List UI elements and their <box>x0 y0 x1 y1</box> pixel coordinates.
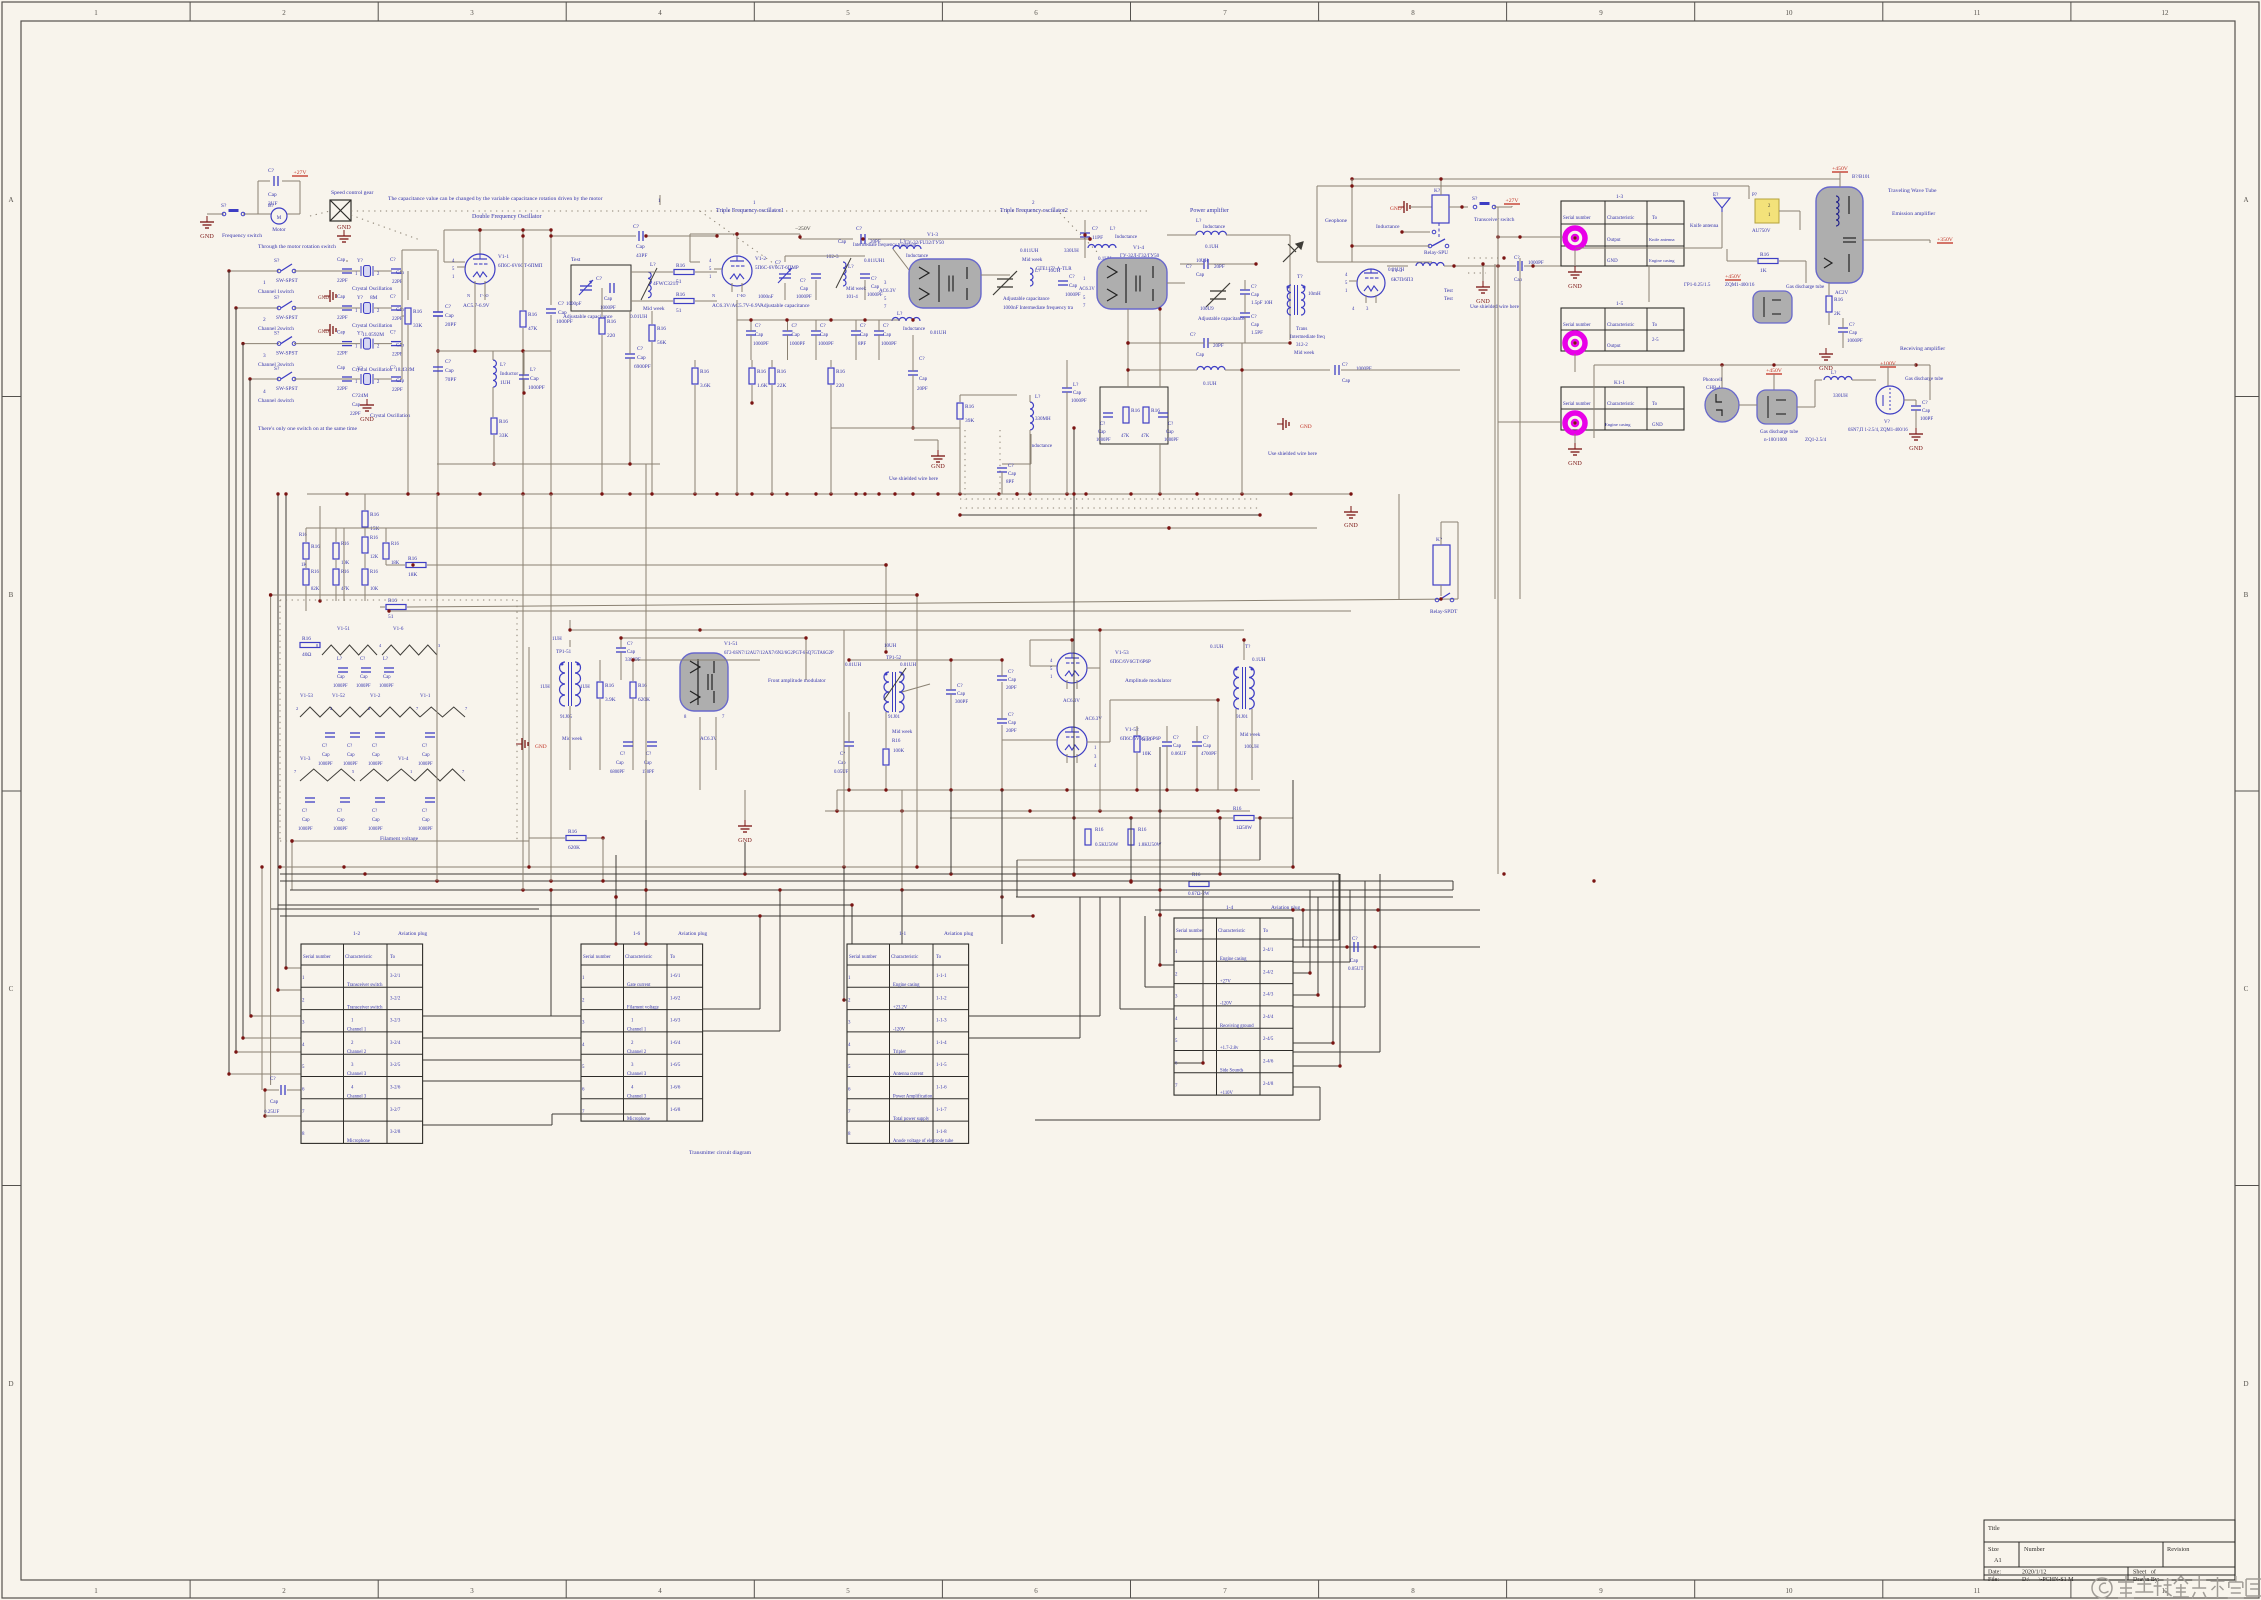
svg-text:+27V: +27V <box>293 170 307 176</box>
svg-text:6: 6 <box>1034 9 1038 17</box>
wire <box>864 280 866 300</box>
svg-text:Through the motor rotation swi: Through the motor rotation switch <box>258 244 336 250</box>
svg-text:Mid week: Mid week <box>1294 350 1315 356</box>
junction <box>1072 492 1075 495</box>
long bus wire <box>280 880 1453 882</box>
wire <box>299 181 301 214</box>
wire <box>265 1115 301 1117</box>
wire <box>400 343 402 345</box>
wire <box>1001 725 1003 790</box>
capacitor <box>639 231 643 241</box>
capacitor <box>391 342 401 346</box>
junction <box>1573 341 1576 344</box>
dotted line <box>310 211 330 216</box>
wire <box>400 270 402 272</box>
svg-text:1.5PF: 1.5PF <box>1251 330 1263 336</box>
junction <box>1158 963 1161 966</box>
svg-text:C?: C? <box>646 752 651 757</box>
inductor L? 330UH <box>1088 245 1116 248</box>
wire <box>815 320 817 331</box>
junction <box>1720 363 1723 366</box>
junction <box>1000 788 1003 791</box>
svg-text:1000PF: 1000PF <box>1071 398 1087 404</box>
capacitor <box>1240 313 1250 317</box>
svg-text:R16: R16 <box>657 326 666 332</box>
wire <box>914 439 938 441</box>
junction <box>1301 908 1304 911</box>
wire <box>444 229 551 231</box>
svg-text:AC5.7-6.9V: AC5.7-6.9V <box>463 303 490 309</box>
svg-text:Serial number: Serial number <box>1563 216 1591 221</box>
junction <box>884 650 887 653</box>
transformer TP1-52 <box>884 672 904 712</box>
junction <box>884 563 887 566</box>
connector table K1-1 <box>1561 387 1684 430</box>
svg-text:AC2V: AC2V <box>1835 290 1849 296</box>
junction <box>492 462 495 465</box>
junction <box>387 609 390 612</box>
wire <box>265 1089 279 1091</box>
junction <box>949 872 952 875</box>
svg-text:C?: C? <box>883 323 889 329</box>
junction <box>1373 945 1376 948</box>
junction <box>949 788 952 791</box>
junction <box>406 492 409 495</box>
svg-text:1000PF: 1000PF <box>333 684 348 689</box>
junction <box>234 306 237 309</box>
junction <box>521 492 524 495</box>
svg-text:0.05UT: 0.05UT <box>1348 966 1364 972</box>
wire <box>878 335 880 360</box>
junction <box>758 914 761 917</box>
svg-text:R16: R16 <box>528 312 537 318</box>
vacuum tube V1-53 <box>1049 653 1087 689</box>
svg-text:1.8KU50W: 1.8KU50W <box>1138 842 1162 848</box>
junction <box>1165 788 1168 791</box>
ruler tick top <box>1694 2 1696 21</box>
svg-text:51: 51 <box>676 279 682 285</box>
wire <box>1293 1065 1340 1067</box>
junction <box>1126 341 1129 344</box>
gas discharge tube V? <box>1876 386 1904 414</box>
wire <box>1332 881 1334 1043</box>
junction <box>829 318 832 321</box>
wire <box>1127 343 1129 370</box>
svg-text:R16: R16 <box>1131 408 1140 414</box>
resistor <box>749 368 768 389</box>
junction <box>644 888 647 891</box>
svg-text:R16: R16 <box>408 556 417 562</box>
junction <box>650 492 653 495</box>
svg-text:AC6.3V: AC6.3V <box>700 736 717 742</box>
svg-text:0.01UH: 0.01UH <box>900 662 916 668</box>
svg-text:C: C <box>9 985 14 993</box>
wire <box>969 1037 1080 1039</box>
filament chain V1-51 <box>322 645 377 655</box>
wire <box>550 230 552 305</box>
wire <box>1721 212 1723 248</box>
wire <box>474 290 476 351</box>
wire <box>1084 220 1086 233</box>
svg-text:AC6.3V: AC6.3V <box>879 288 896 294</box>
svg-text:T?: T? <box>1245 644 1251 650</box>
svg-text:C?: C? <box>390 330 396 336</box>
svg-text:3-2/6: 3-2/6 <box>390 1086 401 1091</box>
ruler tick bottom <box>1318 1580 1320 1598</box>
plug P? yellow box <box>1755 199 1779 223</box>
svg-text:C?: C? <box>1092 226 1099 232</box>
wire <box>959 395 961 402</box>
svg-text:C?24M: C?24M <box>352 393 368 399</box>
junction <box>284 966 287 969</box>
svg-text:GND: GND <box>318 295 329 301</box>
wire <box>492 351 494 360</box>
wire <box>1029 640 1031 666</box>
wire <box>1136 753 1138 790</box>
resistor <box>300 636 320 658</box>
adjustable capacitor 100U9 <box>1206 283 1230 307</box>
capacitor <box>811 331 821 335</box>
svg-text:C?: C? <box>1514 255 1520 261</box>
bus wire <box>960 514 1260 516</box>
junction <box>1072 872 1075 875</box>
wire <box>751 360 753 367</box>
ruler tick right <box>2235 396 2259 398</box>
wire <box>1814 380 1816 407</box>
svg-text:0.1UH: 0.1UH <box>1203 381 1217 387</box>
junction <box>958 513 961 516</box>
crystal <box>361 338 373 349</box>
switch relay-SPDT <box>1435 593 1454 602</box>
svg-text:Microphone: Microphone <box>627 1117 650 1122</box>
junction <box>521 228 524 231</box>
svg-text:22K: 22K <box>777 383 786 389</box>
resistor <box>769 368 786 389</box>
svg-text:Cap: Cap <box>1203 743 1212 749</box>
wire <box>243 213 271 215</box>
wire <box>959 420 961 494</box>
wire <box>815 280 817 300</box>
junction <box>1129 879 1132 882</box>
svg-text:Cap: Cap <box>445 368 454 374</box>
junction <box>1065 492 1068 495</box>
capacitor <box>519 375 529 379</box>
svg-text:L?: L? <box>383 657 388 662</box>
watermark <box>2092 1576 2261 1598</box>
wire <box>305 586 307 601</box>
svg-text:3.6K: 3.6K <box>700 383 711 389</box>
ground <box>1476 281 1490 293</box>
wire to cap <box>1303 946 1480 948</box>
capacitor <box>338 668 348 672</box>
svg-text:C?: C? <box>390 257 396 263</box>
inductor arrow <box>836 258 851 288</box>
svg-text:Receiving amplifier: Receiving amplifier <box>1900 345 1945 352</box>
junction <box>1129 880 1132 883</box>
variable capacitor <box>778 268 792 283</box>
wire <box>343 343 360 345</box>
capacitor <box>1204 259 1208 269</box>
capacitor <box>391 306 401 310</box>
svg-text:1-6/1: 1-6/1 <box>670 974 681 979</box>
svg-text:Test: Test <box>571 257 581 263</box>
junction <box>241 1036 244 1039</box>
svg-text:C?: C? <box>1168 422 1173 427</box>
ruler tick bottom <box>753 1580 755 1598</box>
lower modulator rail 2 <box>825 810 1250 812</box>
wire <box>1079 897 1081 1038</box>
twt electrodes <box>1824 196 1856 272</box>
aviation plug table 1-6 <box>581 944 703 1121</box>
junction <box>290 839 293 842</box>
wire <box>901 790 903 890</box>
wire <box>831 427 960 429</box>
antenna E? knife <box>1714 198 1730 212</box>
svg-text:Inductor: Inductor <box>500 371 518 377</box>
svg-text:C?: C? <box>775 260 782 266</box>
svg-text:C?: C? <box>755 323 761 329</box>
wire <box>1387 265 1408 267</box>
svg-text:1.6K: 1.6K <box>757 383 768 389</box>
svg-text:Cap: Cap <box>800 286 809 292</box>
resistor <box>566 829 586 851</box>
svg-text:Mid week: Mid week <box>562 736 583 742</box>
wire <box>1159 747 1161 915</box>
antenna E? <box>1283 242 1303 262</box>
wire <box>291 841 293 890</box>
ground <box>1568 443 1582 455</box>
wire <box>1110 699 1218 701</box>
svg-text:Cap: Cap <box>302 818 310 823</box>
dotted line <box>516 600 518 841</box>
junction <box>842 865 845 868</box>
svg-text:Cap: Cap <box>337 257 346 263</box>
svg-text:Channel 3switch: Channel 3switch <box>258 362 294 368</box>
wire <box>1293 1051 1380 1053</box>
wire <box>1071 640 1073 653</box>
ground <box>1344 506 1358 518</box>
svg-text:1000PF: 1000PF <box>818 341 834 347</box>
wire <box>868 238 1090 240</box>
wire <box>1243 640 1245 660</box>
wire <box>969 1015 1100 1017</box>
junction <box>1288 341 1291 344</box>
switch S? transceiver <box>1473 202 1496 209</box>
wire <box>1339 874 1341 1066</box>
svg-text:C?: C? <box>919 356 925 362</box>
wire <box>374 378 392 380</box>
junction <box>1158 913 1161 916</box>
wire <box>1773 374 1775 390</box>
svg-text:C?: C? <box>1008 463 1014 469</box>
svg-text:2: 2 <box>368 706 370 711</box>
svg-text:L?: L? <box>500 362 506 368</box>
wire <box>1727 260 1757 262</box>
svg-text:2: 2 <box>263 317 266 323</box>
svg-text:Channel 2switch: Channel 2switch <box>258 326 294 332</box>
svg-text:0.1UH: 0.1UH <box>1205 244 1219 250</box>
svg-text:To: To <box>1652 402 1658 407</box>
traveling wave tube BUB101 <box>1816 187 1863 283</box>
svg-text:1000PF: 1000PF <box>368 762 383 767</box>
wire <box>1293 946 1303 948</box>
chassis ground <box>324 324 336 336</box>
svg-text:2020/1/12: 2020/1/12 <box>2022 1570 2046 1576</box>
svg-text:Cap: Cap <box>360 675 368 680</box>
resistor <box>491 418 508 439</box>
svg-text:V?: V? <box>1884 419 1891 425</box>
wire <box>1145 986 1174 988</box>
svg-text:C?: C? <box>1251 284 1257 290</box>
svg-text:Cap: Cap <box>322 753 330 758</box>
wire <box>282 180 300 182</box>
svg-text:R16: R16 <box>341 570 349 575</box>
capacitor <box>433 312 443 316</box>
capacitor <box>1192 742 1202 746</box>
junction <box>614 895 617 898</box>
svg-text:C?: C? <box>596 276 603 282</box>
svg-text:The capacitance value can be c: The capacitance value can be changed by … <box>388 196 603 202</box>
junction <box>549 888 552 891</box>
dotted line <box>1159 860 1161 960</box>
filament chain V1-6 <box>382 645 437 655</box>
crystal <box>361 266 373 277</box>
wire <box>277 494 279 990</box>
svg-text:C?: C? <box>627 641 633 647</box>
wire <box>286 967 301 969</box>
wire <box>1109 700 1111 742</box>
svg-text:Serial number: Serial number <box>583 955 611 960</box>
wire <box>599 660 601 681</box>
wire <box>620 652 622 680</box>
power tube V1-3 ГУ-32 <box>909 259 981 308</box>
svg-text:R16: R16 <box>302 636 311 642</box>
wire <box>1452 881 1454 890</box>
resistor <box>674 263 694 285</box>
svg-text:2-4/3: 2-4/3 <box>1263 993 1274 998</box>
svg-text:10UH: 10UH <box>884 643 897 649</box>
relay dashed link <box>1438 223 1440 238</box>
wire <box>1001 790 1003 897</box>
junction <box>1502 872 1505 875</box>
resistor <box>1123 407 1140 423</box>
junction <box>478 228 481 231</box>
svg-text:C?: C? <box>820 323 826 329</box>
wire <box>437 463 660 465</box>
svg-text:10mH: 10mH <box>1308 291 1321 297</box>
svg-text:100U9: 100U9 <box>1200 306 1214 312</box>
wire <box>759 916 761 1009</box>
wire <box>484 290 486 300</box>
filament chain V1-3 <box>300 769 355 781</box>
svg-text:0.01UH: 0.01UH <box>1388 267 1404 273</box>
wire <box>1839 172 1841 187</box>
filament chain V1-4b <box>415 769 465 781</box>
capacitor <box>623 742 633 746</box>
svg-text:Adjustable capacitance: Adjustable capacitance <box>760 303 810 309</box>
svg-text:Number: Number <box>2024 1546 2046 1553</box>
svg-text:R16: R16 <box>311 570 319 575</box>
junction <box>715 492 718 495</box>
svg-text:Amplitude modulator: Amplitude modulator <box>1125 678 1172 684</box>
wire <box>851 905 853 944</box>
wire <box>374 270 392 272</box>
junction <box>1216 809 1219 812</box>
upper modulator rail <box>570 629 1244 631</box>
long bus wire <box>1016 896 1453 898</box>
wire <box>1066 360 1068 388</box>
svg-text:SW-SPST: SW-SPST <box>276 386 298 392</box>
svg-text:+350V: +350V <box>1937 237 1954 243</box>
wire <box>1929 240 1931 243</box>
svg-text:0.06UF: 0.06UF <box>1171 751 1186 757</box>
svg-text:To: To <box>1263 929 1269 934</box>
svg-text:Aviation plug: Aviation plug <box>398 931 428 937</box>
capacitor <box>1240 290 1250 294</box>
svg-text:Relay-SPU: Relay-SPU <box>1424 250 1448 256</box>
svg-text:Cap: Cap <box>1849 330 1858 336</box>
svg-text:6: 6 <box>1034 1587 1038 1595</box>
junction <box>1452 264 1455 267</box>
wire <box>602 838 604 881</box>
wire <box>1208 263 1256 265</box>
wire <box>400 378 402 380</box>
svg-text:There's only one switch on at: There's only one switch on at the same t… <box>258 426 358 432</box>
svg-text:11: 11 <box>1974 9 1981 17</box>
svg-text:1-2: 1-2 <box>353 931 360 937</box>
resistor <box>957 403 974 424</box>
long wire <box>386 527 1169 529</box>
svg-text:C?: C? <box>1069 274 1075 280</box>
speed control gear box <box>330 200 351 221</box>
junction <box>1195 788 1198 791</box>
svg-text:GND: GND <box>360 416 374 423</box>
svg-text:220: 220 <box>836 383 844 389</box>
wire <box>1915 400 1917 406</box>
svg-text:Test: Test <box>1444 288 1453 294</box>
pa component box <box>1100 387 1168 444</box>
svg-text:Channel 2: Channel 2 <box>347 1050 367 1055</box>
svg-text:V1-2: V1-2 <box>755 256 766 262</box>
svg-text:Mid week: Mid week <box>846 286 867 292</box>
motor B? <box>271 208 287 224</box>
svg-text:40Ω: 40Ω <box>302 652 311 658</box>
wire <box>1196 726 1198 742</box>
junction <box>915 593 918 596</box>
svg-text:Speed control gear: Speed control gear <box>331 190 374 196</box>
wire <box>235 308 237 1052</box>
wire <box>736 234 738 254</box>
inductor arrow <box>641 268 657 300</box>
svg-text:R16: R16 <box>1095 827 1104 833</box>
svg-text:1-6/8: 1-6/8 <box>670 1108 681 1113</box>
svg-text:Cap: Cap <box>957 691 966 697</box>
wire <box>1779 210 1800 212</box>
svg-text:2-4/2: 2-4/2 <box>1263 970 1274 975</box>
wire <box>257 181 259 214</box>
junction <box>1376 908 1379 911</box>
svg-text:91J05: 91J05 <box>560 714 573 720</box>
wire <box>407 271 409 300</box>
title block <box>1984 1520 2235 1580</box>
svg-text:L?: L? <box>1035 394 1041 400</box>
svg-text:22PF: 22PF <box>392 316 403 322</box>
svg-text:L?: L? <box>1073 382 1079 388</box>
wire <box>1001 682 1003 719</box>
dotted line <box>960 507 1258 509</box>
wire <box>364 554 366 568</box>
wire <box>1016 860 1018 897</box>
